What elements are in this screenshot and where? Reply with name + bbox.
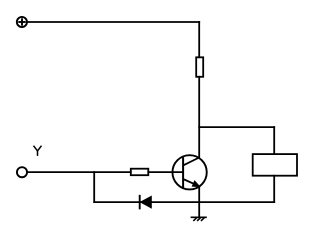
resistor R1	[196, 57, 203, 77]
terminal + (positive supply)	[17, 17, 27, 27]
label Y	[34, 146, 42, 156]
wire R2 to base	[148, 171, 183, 173]
wire relay top lead	[273, 127, 275, 154]
diode D1	[140, 196, 152, 209]
wire emitter down	[198, 187, 200, 218]
wire bottom rail	[94, 201, 274, 203]
wire input branch drop	[93, 172, 95, 202]
terminal Y	[17, 167, 27, 177]
wire relay bottom lead	[273, 176, 275, 202]
transistor Q1	[172, 155, 206, 189]
wire supply drop to R1	[198, 22, 200, 57]
resistor R2	[131, 169, 149, 176]
wire collector branch to relay	[199, 126, 274, 128]
wire top rail	[28, 21, 200, 23]
ground	[191, 217, 206, 220]
relay coil K1	[253, 154, 297, 176]
wire base input	[28, 171, 131, 173]
wire R1 to collector	[198, 77, 200, 158]
